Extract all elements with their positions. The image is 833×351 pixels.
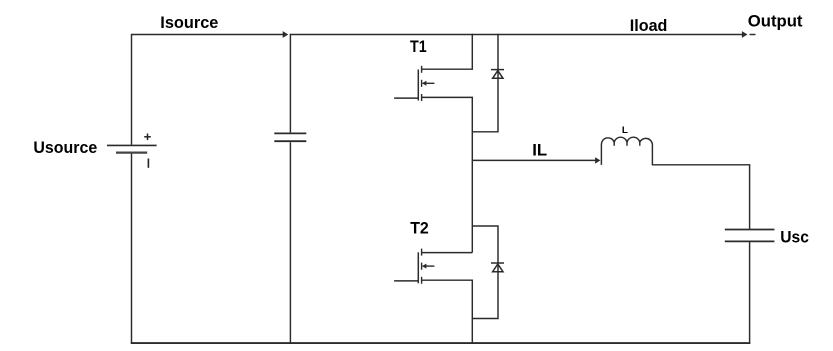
svg-text:L: L <box>622 125 629 135</box>
capacitor Usc plates <box>725 230 775 242</box>
wire T1 gate lead <box>394 97 418 99</box>
wire top rail left segment <box>132 34 284 36</box>
diode D2 (body diode of T2) <box>491 263 504 272</box>
battery minus tick <box>147 159 149 168</box>
wire T2 source to bottom rail <box>422 280 473 344</box>
wire T2 gate lead <box>394 280 418 282</box>
arrowhead Isource <box>283 31 289 38</box>
inductor L <box>601 137 652 165</box>
wire T1 source to midpoint column <box>422 97 473 252</box>
wire T2 drain <box>422 252 473 254</box>
capacitor C input plates <box>274 133 306 141</box>
battery Usource positive plate <box>107 144 157 146</box>
wire left branch bottom (Usource - to bottom rail) <box>131 153 133 344</box>
battery Usource negative plate <box>116 152 147 154</box>
svg-text:Usc: Usc <box>780 228 809 247</box>
wire inductor to right branch <box>652 164 751 166</box>
wire right branch top (to Usc +) <box>749 165 751 229</box>
svg-text:T2: T2 <box>410 218 429 237</box>
wire input capacitor top stem <box>289 34 291 133</box>
wire top rail right segment <box>290 34 742 36</box>
arrowhead Iload <box>742 31 748 38</box>
svg-text:Isource: Isource <box>160 13 218 32</box>
wire D2 branch (midpoint to T2 source column) <box>472 226 498 319</box>
wire IL <box>472 159 595 161</box>
wire D1 branch (top rail to midpoint) <box>472 34 498 132</box>
svg-text:Output: Output <box>748 12 803 31</box>
battery plus sign <box>144 134 151 141</box>
wire input capacitor bottom stem <box>289 142 291 344</box>
wire right branch bottom (Usc - to bottom rail) <box>749 242 751 344</box>
transistor T2 (MOSFET) <box>418 249 434 284</box>
arrowhead IL <box>595 157 600 163</box>
diode D1 (body diode of T1) <box>491 70 504 79</box>
svg-text:Iload: Iload <box>630 16 668 35</box>
transistor T1 (MOSFET) <box>418 66 434 101</box>
svg-text:T1: T1 <box>410 37 427 56</box>
svg-text:Usource: Usource <box>33 138 97 157</box>
wire left branch top (top rail to Usource +) <box>131 34 133 145</box>
wire bottom rail <box>131 342 751 344</box>
svg-text:IL: IL <box>532 140 547 159</box>
output terminal stub <box>750 34 756 36</box>
wire T1 drain <box>422 34 473 69</box>
